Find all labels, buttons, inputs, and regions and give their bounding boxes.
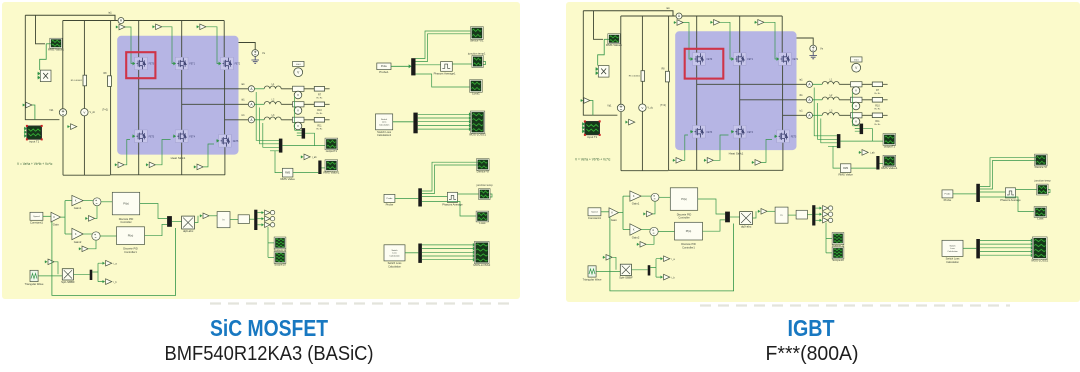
scope device VI1	[470, 27, 484, 43]
svg-text:Probe: Probe	[381, 65, 388, 68]
red highlight box left	[126, 52, 155, 78]
arrow probe1	[408, 65, 411, 68]
svg-text:SiC MOSFET: SiC MOSFET	[210, 315, 329, 341]
left-only probe cluster	[376, 27, 487, 137]
svg-text:Loss: Loss	[382, 122, 386, 124]
svg-text:Calculation: Calculation	[379, 123, 390, 126]
red highlight box right	[685, 49, 724, 79]
svg-text:MOS-LOSS1: MOS-LOSS1	[469, 133, 486, 137]
left canvas	[2, 2, 520, 299]
wire jt1 hook	[482, 62, 485, 65]
arrow loss ch	[469, 113, 472, 116]
wire loss ch	[418, 121, 472, 123]
svg-text:junction temp1: junction temp1	[467, 51, 486, 55]
svg-text:device VI1: device VI1	[470, 39, 484, 43]
svg-text:BMF540R12KA3 (BASiC): BMF540R12KA3 (BASiC)	[165, 342, 374, 365]
wire to junction temp1	[452, 63, 473, 65]
svg-text:Phasors Average1: Phasors Average1	[434, 71, 456, 75]
right schematic	[575, 6, 1051, 291]
svg-text:F***(800A): F***(800A)	[766, 342, 859, 365]
moving average icon	[442, 64, 450, 68]
wire loss ch	[418, 113, 472, 115]
svg-text:Loss1: Loss1	[472, 92, 480, 96]
block Switch Loss Calculation1	[376, 114, 393, 130]
wire loss ch	[418, 128, 472, 130]
wire loss ch	[418, 117, 472, 119]
svg-text:Calculation1: Calculation1	[377, 133, 392, 137]
block Moving Average1	[441, 62, 453, 72]
scope Loss1	[470, 80, 483, 96]
wire to loss1	[416, 74, 471, 87]
wire to deviceVI1	[416, 31, 472, 62]
wire probe1 out	[391, 65, 411, 67]
wire to moving avg1	[416, 64, 441, 66]
dashed underline left	[210, 302, 516, 304]
arrow loss ch	[469, 128, 472, 131]
arrow loss ch	[469, 117, 472, 120]
svg-text:Probe1: Probe1	[379, 70, 389, 74]
scope MOS-LOSS1	[469, 111, 486, 137]
wire loss ch	[418, 124, 472, 126]
arrow loss ch	[469, 120, 472, 123]
arrow loss ch	[469, 124, 472, 127]
svg-text:Switch: Switch	[381, 118, 388, 121]
wire swloss1 out	[393, 121, 414, 123]
svg-text:IGBT: IGBT	[788, 315, 836, 341]
dashed underline right	[700, 304, 1010, 306]
block Probe1	[377, 63, 391, 74]
scope junction temp1	[472, 56, 483, 68]
left schematic	[17, 11, 493, 296]
mux swloss1	[413, 113, 417, 134]
mux probe1	[411, 58, 415, 75]
right canvas	[566, 2, 1080, 302]
